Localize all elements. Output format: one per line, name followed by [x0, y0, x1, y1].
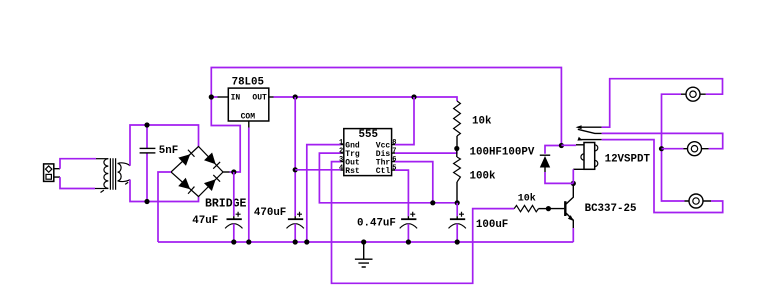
transformer T1: [95, 158, 130, 192]
NC contact: [579, 139, 602, 141]
node 100uF ground: [455, 239, 460, 244]
resistor R1 10k (5V to Dis): [454, 101, 461, 149]
node Rst tap: [293, 167, 298, 172]
svg-text:5: 5: [392, 164, 396, 172]
capacitor C5 0.47uF: [400, 212, 417, 242]
wire bridge DC+ to 78L05 IN and top 12V line: [223, 171, 230, 173]
svg-text:555: 555: [359, 129, 378, 141]
svg-text:47uF: 47uF: [192, 215, 218, 227]
svg-text:5nF: 5nF: [159, 145, 178, 157]
NO contact: [578, 126, 602, 128]
svg-text:Ctl: Ctl: [376, 167, 391, 176]
node 5V at 470uF: [293, 94, 298, 99]
IC U2 555: [339, 129, 396, 177]
common blade: [578, 129, 602, 133]
svg-text:470uF: 470uF: [254, 207, 286, 219]
svg-text:3: 3: [339, 156, 343, 164]
svg-text:100HF100PV: 100HF100PV: [470, 147, 535, 159]
node bridge DC+: [231, 169, 236, 174]
connector P3 (bottom output): [685, 194, 712, 208]
wire transformer secondary bottom to bridge AC bottom: [130, 180, 199, 202]
wire common blade to middle connector: [602, 133, 723, 148]
svg-text:COM: COM: [241, 113, 256, 122]
wire 555 pin8 Vcc to 5V rail: [395, 97, 414, 145]
transistor Q1 BC337-25: [548, 183, 573, 229]
wire plug to transformer primary (top): [60, 159, 96, 169]
connector P1 (top output): [681, 87, 706, 101]
node base resistor junction: [546, 206, 551, 211]
svg-text:6: 6: [392, 156, 396, 164]
wire 555 pin2 Trg to RC node: [319, 153, 457, 203]
node collector: [571, 181, 576, 186]
node secondary-top / 5nF: [144, 122, 149, 127]
wire 555 pin7 Dis to resistor junction: [395, 149, 457, 154]
connector J1 (mains plug): [44, 164, 60, 182]
svg-text:10k: 10k: [518, 193, 536, 205]
svg-text:2: 2: [339, 147, 343, 155]
wire coil bottom to collector: [572, 169, 574, 183]
svg-text:10k: 10k: [472, 116, 492, 128]
wire 555 pin5 Ctl to 0.47uF: [395, 170, 408, 216]
node 12V supply: [559, 143, 564, 148]
svg-text:8: 8: [392, 139, 396, 147]
node 78L05 IN: [209, 94, 214, 99]
wire 78L05 IN stub: [211, 96, 217, 98]
wire Rst (pin4): [295, 169, 340, 171]
svg-text:0.47uF: 0.47uF: [357, 217, 396, 229]
wire emitter to ground rail: [572, 228, 574, 242]
connector P2 (middle output): [683, 142, 708, 156]
wire 555 pin1 Gnd to ground rail: [307, 145, 341, 242]
node 470uF ground: [293, 239, 298, 244]
regulator U1 78L05: [218, 76, 274, 127]
wire 5V down to Rst and 470uF: [294, 97, 296, 216]
capacitor C4 100uF: [449, 203, 466, 242]
svg-text:7: 7: [392, 147, 396, 155]
node COM ground: [246, 239, 251, 244]
node Thr tap: [430, 200, 435, 205]
svg-text:4: 4: [339, 164, 343, 172]
svg-text:100k: 100k: [470, 170, 496, 182]
diode L-B: [178, 178, 195, 195]
resistor R3 10k (base): [514, 205, 548, 211]
node ground symbol tap: [361, 239, 366, 244]
wire NC contact to bottom connector: [602, 140, 723, 213]
diode B-R: [204, 174, 221, 191]
svg-text:BC337-25: BC337-25: [585, 203, 637, 215]
node connector bus middle: [659, 146, 664, 151]
svg-text:78L05: 78L05: [232, 76, 264, 88]
capacitor C2 47uF: [225, 172, 242, 242]
svg-text:Rst: Rst: [345, 167, 360, 176]
capacitor C1 5nF: [140, 125, 156, 202]
node secondary-bottom / 5nF: [144, 199, 149, 204]
resistor R2 100k: [454, 149, 461, 203]
capacitor C3 470uF: [287, 212, 304, 242]
wire 555 pin6 Thr to RC node: [395, 162, 433, 203]
svg-text:1: 1: [339, 139, 343, 147]
ground rail wire: [158, 241, 573, 243]
wire NO contact to top-right line: [602, 79, 723, 128]
svg-text:BRIDGE: BRIDGE: [205, 197, 247, 210]
diode L-T: [178, 149, 195, 166]
relay K1 coil: [561, 143, 597, 170]
node 0.47uF ground: [406, 239, 411, 244]
wire 78L05 COM to ground rail: [248, 128, 250, 243]
svg-text:100uF: 100uF: [476, 219, 508, 231]
wire bridge DC- to ground rail: [158, 172, 171, 242]
wire 5V output rail: [274, 97, 458, 101]
node 555 gnd: [304, 239, 309, 244]
node RC junction: [455, 200, 460, 205]
bridge rectifier BR1: [171, 147, 223, 197]
ground symbol: [355, 242, 373, 267]
wire transformer secondary top to bridge AC top: [130, 125, 199, 166]
wire connector common bus: [662, 94, 685, 201]
svg-text:12VSPDT: 12VSPDT: [605, 154, 651, 166]
diode T-R: [204, 152, 221, 169]
svg-text:OUT: OUT: [252, 93, 267, 102]
diode D1 flyback: [540, 146, 574, 184]
wire bus to middle connector: [662, 148, 684, 150]
node 47uF ground: [231, 239, 236, 244]
wire plug to transformer primary (bottom): [60, 177, 95, 188]
wire 555 pin3 Out to base resistor: [332, 162, 515, 284]
svg-text:IN: IN: [231, 93, 241, 102]
node 5V at Vcc riser: [411, 94, 416, 99]
relay K1 contacts: [576, 125, 602, 140]
node Dis junction: [454, 146, 459, 151]
